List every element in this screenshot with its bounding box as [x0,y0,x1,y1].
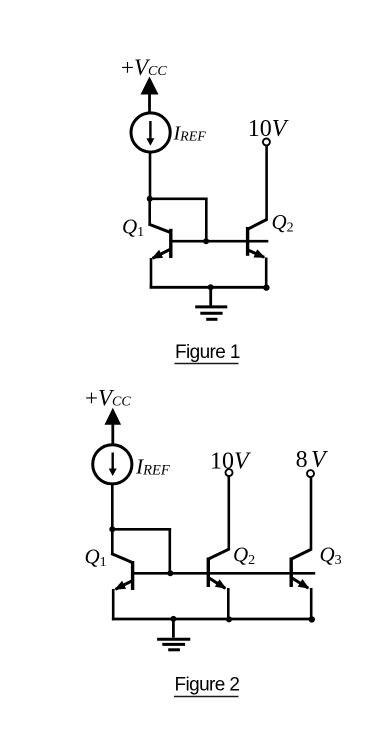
svg-text:Figure 2: Figure 2 [175,674,240,695]
label IREF [173,122,207,144]
svg-text:IREF: IREF [135,455,170,479]
svg-text:Q1: Q1 [85,545,107,571]
current source IREF [131,113,170,152]
wire: Q2 emitter down to rail [227,588,230,620]
svg-text:Q2: Q2 [233,543,255,569]
wire: Q1 emitter down to rail [150,258,153,289]
svg-text:Q1: Q1 [122,215,144,241]
wire: node A down toward Q1 collector [148,199,151,225]
node G (rail right end dot) [309,616,315,622]
wire: 8V terminal to Q3 collector (fig2) [310,477,313,551]
wire: node D right [112,528,171,531]
label +VCC (fig2) [85,386,131,411]
svg-text:+VCC: +VCC [85,386,131,411]
wire: node A to base-node (top horizontal) [150,198,208,201]
label Q2 (fig2) [233,543,255,569]
wire: shared base wire (fig2) [133,572,316,575]
label 10V (fig2) [210,448,251,474]
wire: current source to node A [149,152,152,200]
svg-text:IREF: IREF [173,122,207,144]
ground [195,287,227,319]
label Q3 (fig2) [320,543,342,569]
transistor Q1 [149,224,172,259]
+VCC supply arrow [141,77,159,114]
caption Figure 1 [175,342,240,364]
terminal 10V (fig2) [226,469,233,476]
wire: Q3 emitter down to rail [310,588,313,620]
node C (rail right corner dot) [263,284,269,290]
wire: Q1 emitter down to rail (fig2) [112,589,115,620]
label Q1 [122,215,144,241]
node B (base junction dot) [203,238,209,244]
label Q2 [272,210,294,236]
transistor Q2 (fig2) [208,549,229,589]
wire: down to base wire (fig2) [169,528,172,573]
node D (junction dot) [109,526,115,532]
wire: 10V terminal to Q2 collector (fig2) [228,476,231,551]
wire: shared base wire [171,240,268,243]
label IREF (fig2) [135,455,170,479]
svg-text:10V: 10V [248,116,289,142]
wire: current source to node D [111,484,114,531]
bottom rail wire [150,286,267,289]
transistor Q2 [247,220,267,258]
svg-text:10V: 10V [210,448,251,474]
label +VCC [121,55,167,80]
label 8V (fig2) [296,447,328,473]
terminal 8V (fig2) [307,470,314,477]
wire: node D down toward Q1 collector [111,529,114,554]
ground junction dot [208,284,214,290]
wire: Q2 emitter down to rail [265,258,268,289]
label 10V [248,116,289,142]
+VCC supply arrow (fig2) [105,408,122,445]
transistor Q3 (fig2) [291,549,311,588]
current source IREF (fig2) [93,445,132,484]
caption Figure 2 [174,674,239,696]
wire: 10V terminal to Q2 collector [265,146,268,221]
transistor Q1 (fig2) [111,554,133,591]
svg-text:Q2: Q2 [272,210,294,236]
node A (junction dot) [147,196,153,202]
node E (base junction dot) [167,570,173,576]
wire: down to base wire [205,198,208,242]
svg-text:Q3: Q3 [320,543,342,569]
node F (rail dot under Q2) [226,616,232,622]
svg-text:8V: 8V [296,447,328,473]
svg-text:+VCC: +VCC [121,55,167,80]
terminal 10V [263,139,270,146]
label Q1 (fig2) [85,545,107,571]
ground (fig2) [157,619,190,650]
ground junction dot (fig2) [170,616,176,622]
svg-text:Figure 1: Figure 1 [175,342,240,363]
bottom rail wire (fig2) [112,618,312,621]
